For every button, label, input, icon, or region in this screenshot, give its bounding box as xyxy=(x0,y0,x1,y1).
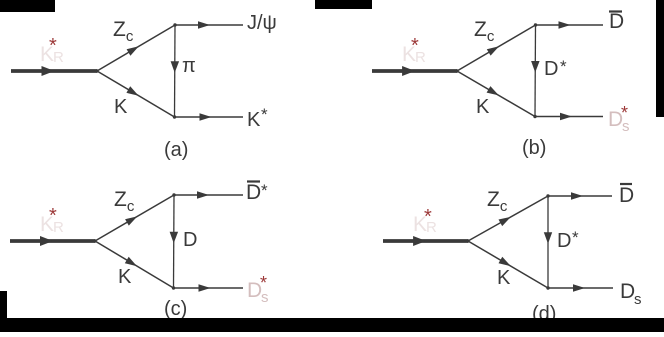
svg-text:*: * xyxy=(261,105,268,124)
svg-text:D: D xyxy=(620,280,635,303)
left vertex panel d xyxy=(466,239,469,242)
svg-text:K: K xyxy=(114,96,128,118)
svg-text:s: s xyxy=(634,291,642,308)
black patch top-middle edge xyxy=(315,0,372,9)
svg-text:*: * xyxy=(260,273,267,293)
svg-text:*: * xyxy=(560,57,567,76)
black patch right edge xyxy=(656,0,664,117)
incoming K*_R line panel b xyxy=(372,69,457,73)
bottom vertex panel d xyxy=(546,286,549,289)
left vertex panel a xyxy=(95,69,98,72)
left vertex panel c xyxy=(93,239,96,242)
top vertex panel a xyxy=(173,23,176,26)
D_s* outgoing line panel b xyxy=(535,116,603,118)
top vertex panel b xyxy=(534,23,537,26)
svg-text:R: R xyxy=(426,219,437,236)
svg-text:K: K xyxy=(247,109,261,131)
J/psi outgoing line panel a xyxy=(175,24,243,26)
K propagator panel b xyxy=(457,71,535,117)
svg-text:D: D xyxy=(619,184,634,207)
svg-text:*: * xyxy=(621,103,628,123)
D* exchange line panel d xyxy=(547,196,549,288)
Dbar outgoing line panel d xyxy=(548,195,612,197)
incoming K*_R line panel a xyxy=(11,69,97,73)
Z_c propagator panel a xyxy=(97,25,175,71)
Dbar* outgoing line panel c xyxy=(174,194,243,196)
Dbar outgoing line panel b xyxy=(536,24,604,26)
svg-text:K: K xyxy=(118,266,132,288)
svg-text:D: D xyxy=(557,230,571,252)
top vertex panel d xyxy=(546,194,549,197)
bottom vertex panel b xyxy=(533,115,536,118)
Z_c propagator panel b xyxy=(457,25,536,71)
black patch bottom strip xyxy=(0,318,664,332)
incoming K*_R line panel d xyxy=(383,239,468,243)
K propagator panel a xyxy=(97,71,175,117)
Z_c propagator panel c xyxy=(95,195,174,241)
svg-text:R: R xyxy=(53,219,64,236)
left vertex panel b xyxy=(455,69,458,72)
svg-text:(a): (a) xyxy=(164,139,188,161)
svg-text:K: K xyxy=(497,267,511,289)
svg-text:R: R xyxy=(53,49,64,66)
svg-text:(b): (b) xyxy=(522,137,546,159)
D* exchange line panel b xyxy=(534,25,537,117)
svg-text:*: * xyxy=(261,181,268,200)
D_s* outgoing line panel c xyxy=(174,287,244,289)
svg-text:J/ψ: J/ψ xyxy=(247,12,277,34)
svg-text:D: D xyxy=(544,58,558,80)
K* outgoing line panel a xyxy=(175,116,244,118)
pi exchange line panel a xyxy=(174,25,177,117)
top vertex panel c xyxy=(172,193,175,196)
bottom vertex panel a xyxy=(173,115,176,118)
svg-text:*: * xyxy=(572,228,579,247)
svg-text:K: K xyxy=(476,96,490,118)
incoming K*_R line panel c xyxy=(10,239,95,243)
svg-text:π: π xyxy=(182,55,196,77)
svg-text:(c): (c) xyxy=(164,298,187,320)
bottom vertex panel c xyxy=(172,286,175,289)
D exchange line panel c xyxy=(173,195,176,288)
Z_c propagator panel d xyxy=(468,196,548,241)
K propagator panel c xyxy=(95,241,174,288)
K propagator panel d xyxy=(468,241,548,288)
D_s outgoing line panel d xyxy=(548,287,613,289)
svg-text:D: D xyxy=(183,229,197,251)
svg-text:D: D xyxy=(609,10,624,33)
black patch left edge lower xyxy=(0,291,7,318)
svg-text:D: D xyxy=(246,181,261,204)
black patch top-left edge xyxy=(0,0,55,12)
svg-text:R: R xyxy=(415,49,426,66)
